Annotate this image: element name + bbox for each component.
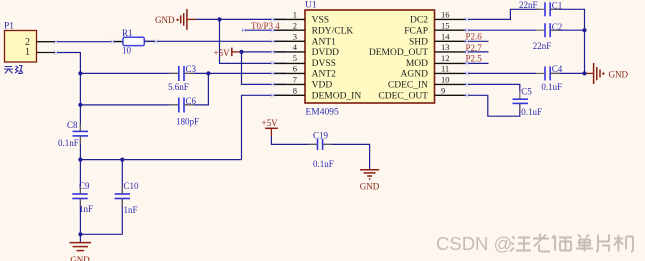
watermark 汪老师单片机 glyphs <box>510 234 633 252</box>
wire C1 to right rail <box>550 9 584 73</box>
node junction at 80,234.3 <box>78 232 82 236</box>
svg-text:1nF: 1nF <box>124 205 138 215</box>
svg-text:ANT1: ANT1 <box>312 38 337 48</box>
svg-text:5.6nF: 5.6nF <box>168 82 189 92</box>
node junction at 122.3,159.6 <box>120 158 124 162</box>
capacitor C6 <box>176 96 199 127</box>
svg-text:SHD: SHD <box>409 38 428 48</box>
wire GND to U1 pin1 VSS <box>196 18 286 20</box>
node junction at 80,159.6 <box>78 158 82 162</box>
wire pin11 AGND to C4 <box>465 72 537 74</box>
node junction at 584.5,73.4 <box>582 71 586 75</box>
node junction at 208,73.4 <box>206 71 210 75</box>
svg-text:12: 12 <box>441 53 450 63</box>
wire +5V to C19 <box>271 136 317 144</box>
wire +5V to U1 pin4 DVDD <box>242 51 287 53</box>
wire pin15 FCAP to C2 <box>465 29 537 31</box>
svg-text:9: 9 <box>441 86 445 96</box>
wire down to ground <box>79 234 81 242</box>
power +5V (C19 branch) <box>262 118 279 136</box>
svg-text:+5V: +5V <box>262 118 279 128</box>
svg-text:MOD: MOD <box>406 59 428 69</box>
node junction at 584.5,30.2 <box>582 28 586 32</box>
wire C4 to rail <box>550 72 584 74</box>
U1 left pin numbers <box>293 10 298 96</box>
svg-text:DEMOD_IN: DEMOD_IN <box>312 92 362 102</box>
U1 right pin stubs 16-9 <box>435 19 465 95</box>
svg-text:VSS: VSS <box>312 16 329 26</box>
wire pin14 SHD <box>465 40 489 42</box>
capacitor C1 <box>519 0 562 16</box>
wire C19 to ground <box>323 144 370 169</box>
svg-text:R1: R1 <box>122 28 133 38</box>
node junction at 219.5,19.4 <box>217 17 221 21</box>
wire C2 to rail <box>550 29 584 31</box>
wire to C6 left <box>80 104 178 106</box>
wire U1 pin8 DEMOD_IN down to C8 node <box>242 95 287 159</box>
svg-text:C3: C3 <box>186 64 197 74</box>
node junction at 80,105 <box>78 103 82 107</box>
ground GND middle <box>360 170 380 192</box>
svg-text:0.1uF: 0.1uF <box>541 82 562 92</box>
svg-text:DC2: DC2 <box>410 16 428 26</box>
svg-text:1: 1 <box>293 10 297 20</box>
svg-text:10: 10 <box>441 75 450 85</box>
label 天线 (antenna) <box>4 66 23 74</box>
svg-text:6: 6 <box>293 64 297 74</box>
U1 right pin numbers <box>441 10 450 96</box>
svg-text:1: 1 <box>25 47 30 58</box>
svg-text:13: 13 <box>441 42 450 52</box>
U1 left pin stubs 1-8 <box>275 19 305 95</box>
ground GND bottom-left <box>70 243 92 261</box>
svg-text:RDY/CLK: RDY/CLK <box>312 26 354 36</box>
capacitor C5 <box>513 86 542 117</box>
svg-text:7: 7 <box>293 75 297 85</box>
svg-text:GND: GND <box>155 15 175 25</box>
capacitor C9 <box>72 160 93 235</box>
svg-text:DVSS: DVSS <box>312 59 336 69</box>
wire R1 to U1 pin3 ANT1 <box>144 40 286 42</box>
svg-text:3: 3 <box>293 32 297 42</box>
svg-text:C10: C10 <box>124 181 140 191</box>
capacitor C3 <box>168 64 197 92</box>
svg-text:C4: C4 <box>552 64 563 74</box>
svg-text:CDEC_OUT: CDEC_OUT <box>378 92 428 102</box>
ground GND top <box>155 9 196 30</box>
svg-text:FCAP: FCAP <box>404 26 428 36</box>
svg-text:DEMOD_OUT: DEMOD_OUT <box>369 48 428 58</box>
svg-text:10: 10 <box>122 46 132 56</box>
wire pin9 CDEC_OUT to C5 bottom <box>465 95 520 116</box>
power +5V (at DVDD) <box>214 48 242 58</box>
svg-text:C8: C8 <box>67 120 78 130</box>
wire C8 bottom to node <box>79 136 81 160</box>
wire C6 right up to junction <box>184 73 208 105</box>
U1 left pin names <box>312 16 362 102</box>
capacitor C2 <box>533 22 562 51</box>
wire +5V down to U1 pin7 VDD <box>242 52 287 85</box>
svg-text:C5: C5 <box>521 86 532 96</box>
svg-text:22nF: 22nF <box>533 41 552 51</box>
wire junction to U1 pin6 ANT2 <box>208 72 286 74</box>
wire node row to DEMOD_IN riser <box>80 159 241 161</box>
svg-text:EM4095: EM4095 <box>306 108 340 118</box>
resistor R1 <box>114 28 155 56</box>
svg-text:CSDN @: CSDN @ <box>436 233 512 254</box>
wire down to U1 pin5 DVSS <box>220 19 287 63</box>
svg-text:0.1uF: 0.1uF <box>521 107 542 117</box>
wire pin12 MOD <box>465 62 489 64</box>
node junction at 80,73.4 <box>78 71 82 75</box>
capacitor C4 <box>541 64 562 92</box>
svg-text:C19: C19 <box>313 131 329 141</box>
svg-text:14: 14 <box>441 32 450 42</box>
svg-text:8: 8 <box>293 86 297 96</box>
svg-text:2: 2 <box>293 20 297 30</box>
svg-text:CDEC_IN: CDEC_IN <box>388 81 428 91</box>
U1 right pin names <box>369 16 428 102</box>
capacitor C19 <box>313 131 334 169</box>
svg-text:GND: GND <box>70 255 90 261</box>
svg-text:180pF: 180pF <box>176 117 199 127</box>
svg-text:15: 15 <box>441 20 450 30</box>
wire to C3 left <box>80 72 178 74</box>
wire P1.2 to R1 <box>56 41 123 43</box>
svg-text:16: 16 <box>441 10 450 20</box>
op chip U1 EM4095 <box>305 1 435 118</box>
svg-text:5: 5 <box>293 53 297 63</box>
wire pin16 DC2 to C1 <box>465 9 540 19</box>
faint connection crosses <box>54 17 469 97</box>
svg-text:AGND: AGND <box>401 70 429 80</box>
ground GND right <box>586 63 628 84</box>
svg-text:GND: GND <box>609 69 629 79</box>
svg-text:VDD: VDD <box>312 81 333 91</box>
wire C3 right to junction <box>184 72 208 74</box>
capacitor C8 <box>58 120 88 148</box>
svg-text:11: 11 <box>441 64 449 74</box>
connector P1 <box>4 22 56 63</box>
wire P1.1 down <box>56 53 80 132</box>
wire bottom row <box>80 233 122 235</box>
node junction at 241.5,51.9 <box>239 50 243 54</box>
wire net T0/P3.4 to U1 pin2 RDY/CLK <box>242 29 286 31</box>
svg-text:22nF: 22nF <box>519 0 538 10</box>
svg-text:ANT2: ANT2 <box>312 70 337 80</box>
svg-text:4: 4 <box>293 42 298 52</box>
svg-text:0.1uF: 0.1uF <box>313 159 334 169</box>
wire pin13 DEMOD_OUT <box>465 51 489 53</box>
svg-text:+5V: +5V <box>214 48 231 58</box>
capacitor gray leads <box>80 9 559 206</box>
capacitor C10 <box>115 160 139 235</box>
svg-text:U1: U1 <box>305 1 317 11</box>
svg-text:DVDD: DVDD <box>312 48 340 58</box>
svg-text:GND: GND <box>360 181 380 191</box>
svg-text:0.1nF: 0.1nF <box>58 138 79 148</box>
wire pin10 CDEC_IN to C5 top <box>465 84 520 91</box>
svg-text:1nF: 1nF <box>79 204 93 214</box>
